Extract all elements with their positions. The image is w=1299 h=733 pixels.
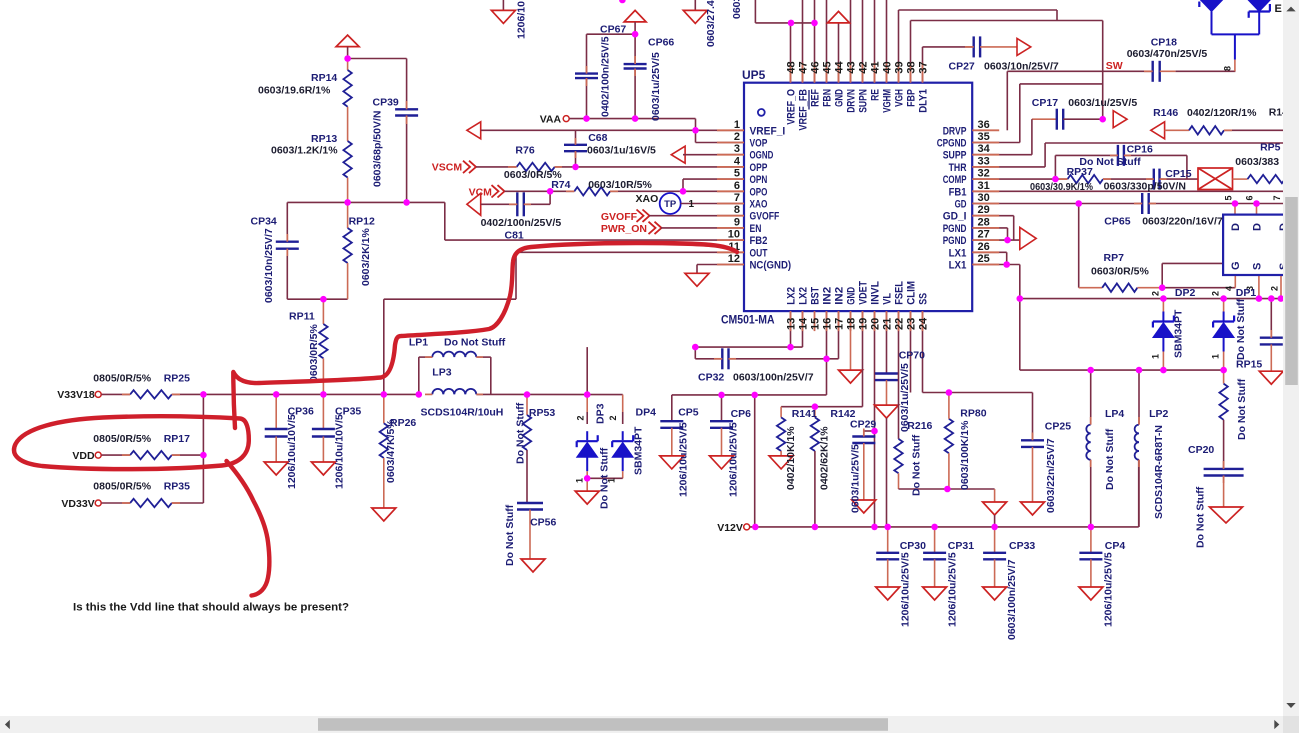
svg-text:25: 25 (978, 253, 990, 265)
svg-text:LP2: LP2 (1149, 408, 1168, 420)
svg-text:0603/220n/16V/7: 0603/220n/16V/7 (1142, 216, 1223, 228)
svg-text:CLIM: CLIM (906, 281, 918, 305)
svg-text:0603/1u/25V/5: 0603/1u/25V/5 (850, 444, 862, 513)
svg-text:0603/30.9K/1%: 0603/30.9K/1% (1030, 181, 1094, 193)
svg-text:0603/100K/1%: 0603/100K/1% (959, 420, 971, 490)
svg-text:43: 43 (846, 61, 858, 73)
svg-text:4: 4 (734, 155, 741, 167)
svg-text:RP12: RP12 (349, 216, 375, 228)
svg-text:VREF_O: VREF_O (786, 89, 798, 125)
svg-text:DLY1: DLY1 (918, 89, 930, 113)
svg-text:CP25: CP25 (1045, 421, 1071, 433)
svg-text:VGHM: VGHM (882, 89, 894, 113)
svg-text:5: 5 (1224, 195, 1234, 200)
svg-text:8: 8 (1223, 66, 1233, 71)
svg-text:7: 7 (1272, 195, 1282, 200)
svg-text:DP4: DP4 (636, 407, 657, 419)
svg-text:CP34: CP34 (251, 216, 277, 228)
svg-text:0805/0R/5%: 0805/0R/5% (93, 373, 151, 385)
svg-text:LX2: LX2 (798, 287, 810, 305)
svg-text:V33V18: V33V18 (57, 389, 95, 401)
svg-text:0603: 0603 (731, 0, 743, 19)
svg-text:16: 16 (822, 318, 834, 330)
svg-text:R216: R216 (907, 420, 932, 432)
svg-text:1: 1 (734, 119, 740, 131)
svg-text:2: 2 (1151, 291, 1161, 296)
svg-text:RP14: RP14 (311, 72, 337, 84)
svg-text:VL: VL (882, 293, 894, 305)
svg-text:1206/10u/10V/5: 1206/10u/10V/5 (286, 414, 298, 489)
svg-text:45: 45 (822, 61, 834, 73)
svg-text:SBM34PT: SBM34PT (1173, 309, 1185, 358)
svg-text:CPGND: CPGND (937, 138, 967, 150)
svg-text:CP5: CP5 (678, 407, 699, 419)
svg-text:C81: C81 (505, 230, 524, 242)
svg-text:VDET: VDET (858, 281, 870, 305)
svg-text:LX1: LX1 (949, 260, 967, 272)
svg-text:1: 1 (1211, 354, 1221, 359)
svg-text:RP35: RP35 (164, 481, 190, 493)
svg-text:0603/100n/25V/7: 0603/100n/25V/7 (733, 372, 814, 384)
svg-text:17: 17 (834, 318, 846, 330)
svg-text:THR: THR (949, 162, 967, 174)
svg-text:GD: GD (955, 199, 967, 211)
svg-text:4: 4 (1224, 286, 1234, 291)
svg-text:1206/10u/25V/5: 1206/10u/25V/5 (1103, 552, 1115, 627)
svg-text:39: 39 (894, 61, 906, 73)
svg-text:G: G (1230, 261, 1242, 270)
svg-text:Is this the Vdd line that shou: Is this the Vdd line that should always … (73, 602, 349, 614)
svg-text:0603/10n/25V/7: 0603/10n/25V/7 (984, 61, 1059, 73)
svg-text:0603/10n/25V/7: 0603/10n/25V/7 (263, 228, 275, 303)
svg-text:0603/68p/50V/N: 0603/68p/50V/N (372, 111, 384, 187)
svg-text:Do Not Stuff: Do Not Stuff (1235, 298, 1247, 360)
svg-text:IN2: IN2 (822, 287, 834, 305)
svg-text:46: 46 (810, 61, 822, 73)
svg-text:RP5: RP5 (1260, 142, 1281, 154)
svg-text:41: 41 (870, 61, 882, 73)
svg-text:1206/10u/25V/5: 1206/10u/25V/5 (727, 422, 739, 497)
svg-text:40: 40 (882, 61, 894, 73)
svg-text:E: E (1275, 3, 1282, 15)
svg-text:0603/0R/5%: 0603/0R/5% (1091, 266, 1149, 278)
svg-text:CP4: CP4 (1105, 540, 1126, 552)
svg-text:10: 10 (728, 229, 740, 241)
svg-text:0603/330p/50V/N: 0603/330p/50V/N (1104, 181, 1186, 193)
svg-text:CP27: CP27 (949, 61, 975, 73)
svg-text:6: 6 (734, 180, 740, 192)
svg-text:31: 31 (978, 180, 990, 192)
svg-text:RP15: RP15 (1236, 359, 1262, 371)
svg-text:GVOFF: GVOFF (601, 211, 638, 223)
svg-text:Do Not Stuff: Do Not Stuff (514, 402, 526, 464)
svg-text:LP3: LP3 (432, 367, 451, 379)
svg-text:7: 7 (734, 192, 740, 204)
svg-text:PGND: PGND (943, 223, 967, 235)
svg-text:PWR_ON: PWR_ON (601, 223, 647, 235)
svg-text:XAO: XAO (636, 193, 659, 205)
svg-text:12: 12 (728, 253, 740, 265)
svg-text:23: 23 (906, 318, 918, 330)
svg-text:CP56: CP56 (530, 517, 556, 529)
svg-text:20: 20 (870, 318, 882, 330)
svg-text:RE: RE (870, 89, 882, 101)
svg-text:VSCM: VSCM (432, 162, 463, 174)
svg-text:RP13: RP13 (311, 133, 337, 145)
svg-text:Do Not Stuff: Do Not Stuff (444, 337, 506, 349)
svg-text:2: 2 (576, 415, 586, 420)
svg-text:0402/120R/1%: 0402/120R/1% (1187, 107, 1257, 119)
svg-text:DRVN: DRVN (846, 89, 858, 113)
svg-text:LP4: LP4 (1105, 408, 1124, 420)
svg-text:CP6: CP6 (731, 408, 752, 420)
svg-text:CP15: CP15 (1165, 168, 1191, 180)
svg-text:0603/19.6R/1%: 0603/19.6R/1% (258, 85, 331, 97)
svg-text:OPN: OPN (750, 174, 768, 186)
svg-text:R76: R76 (515, 145, 534, 157)
svg-text:36: 36 (978, 119, 990, 131)
svg-text:RP80: RP80 (960, 408, 986, 420)
svg-text:Do Not Stuff: Do Not Stuff (911, 434, 923, 496)
svg-text:0603/1u/16V/5: 0603/1u/16V/5 (587, 145, 656, 157)
svg-text:VGH: VGH (894, 89, 906, 107)
svg-text:R146: R146 (1153, 107, 1178, 119)
svg-text:6: 6 (1245, 195, 1255, 200)
svg-text:2: 2 (734, 131, 740, 143)
svg-text:37: 37 (918, 61, 930, 73)
svg-text:SS: SS (918, 293, 930, 305)
svg-text:CP39: CP39 (373, 97, 399, 109)
svg-text:30: 30 (978, 192, 990, 204)
svg-text:3: 3 (734, 143, 740, 155)
svg-text:VDD: VDD (72, 450, 95, 462)
svg-text:SCDS104R/10uH: SCDS104R/10uH (421, 407, 504, 419)
svg-text:21: 21 (882, 318, 894, 330)
svg-text:0402/100n/25V/5: 0402/100n/25V/5 (481, 217, 562, 229)
svg-text:0603/2K/1%: 0603/2K/1% (360, 228, 372, 286)
svg-text:47: 47 (798, 61, 810, 73)
svg-text:15: 15 (810, 318, 822, 330)
svg-text:28: 28 (978, 216, 990, 228)
svg-text:RP26: RP26 (390, 417, 416, 429)
svg-text:2: 2 (608, 415, 618, 420)
svg-text:SCDS104R-6R8T-N: SCDS104R-6R8T-N (1153, 425, 1165, 519)
svg-text:CP35: CP35 (335, 406, 361, 418)
svg-text:PGND: PGND (943, 235, 967, 247)
svg-text:CP31: CP31 (948, 540, 974, 552)
svg-text:EN: EN (750, 223, 762, 235)
svg-text:CP29: CP29 (850, 419, 876, 431)
svg-text:35: 35 (978, 131, 990, 143)
svg-text:0603/22n/25V/7: 0603/22n/25V/7 (1045, 438, 1057, 513)
svg-text:UP5: UP5 (742, 68, 766, 82)
svg-text:SUPN: SUPN (858, 89, 870, 113)
svg-text:1: 1 (575, 478, 585, 483)
svg-text:0603/1u/25V/5: 0603/1u/25V/5 (650, 52, 662, 121)
svg-text:DP3: DP3 (595, 403, 607, 424)
svg-text:V12V: V12V (717, 522, 743, 534)
svg-text:FB1: FB1 (949, 186, 967, 198)
svg-text:CP33: CP33 (1009, 540, 1035, 552)
svg-text:18: 18 (846, 318, 858, 330)
svg-text:INVL: INVL (870, 281, 882, 305)
svg-text:22: 22 (894, 318, 906, 330)
svg-text:0603/1u/25V/5: 0603/1u/25V/5 (1068, 97, 1137, 109)
svg-text:FB2: FB2 (750, 235, 768, 247)
svg-text:26: 26 (978, 241, 990, 253)
svg-text:GND: GND (834, 89, 846, 107)
svg-text:LX2: LX2 (786, 287, 798, 305)
svg-text:OUT: OUT (750, 247, 768, 259)
svg-text:FSEL: FSEL (894, 281, 906, 305)
svg-text:48: 48 (786, 61, 798, 73)
svg-text:RP11: RP11 (289, 311, 315, 323)
svg-text:SW: SW (1106, 60, 1123, 72)
svg-text:0402/10K/1%: 0402/10K/1% (785, 426, 797, 490)
svg-text:1206/10u/10V/5: 1206/10u/10V/5 (333, 414, 345, 489)
svg-text:DP2: DP2 (1175, 287, 1196, 299)
svg-text:33: 33 (978, 155, 990, 167)
svg-text:38: 38 (906, 61, 918, 73)
svg-text:CP32: CP32 (698, 372, 724, 384)
svg-text:0603/1.2K/1%: 0603/1.2K/1% (271, 145, 338, 157)
svg-text:9: 9 (734, 216, 740, 228)
svg-text:0805/0R/5%: 0805/0R/5% (93, 433, 151, 445)
svg-text:OGND: OGND (750, 150, 774, 162)
svg-text:1: 1 (1151, 354, 1161, 359)
svg-text:Do Not Stuff: Do Not Stuff (1236, 378, 1248, 440)
svg-text:Do Not Stuff: Do Not Stuff (1195, 486, 1207, 548)
svg-text:14: 14 (798, 317, 810, 330)
svg-text:8: 8 (734, 204, 740, 216)
svg-text:VD33V: VD33V (61, 498, 94, 510)
svg-text:RP53: RP53 (529, 407, 555, 419)
svg-text:D: D (1230, 223, 1242, 231)
svg-text:RP17: RP17 (164, 433, 190, 445)
svg-text:CP16: CP16 (1127, 144, 1153, 156)
svg-text:0603/0R/5%: 0603/0R/5% (308, 324, 320, 382)
svg-text:0402/100n/25V/5: 0402/100n/25V/5 (600, 36, 612, 117)
svg-text:R141: R141 (792, 408, 817, 420)
svg-text:RP37: RP37 (1067, 166, 1093, 178)
svg-text:1206/10u/25V/5: 1206/10u/25V/5 (900, 552, 912, 627)
svg-text:CP70: CP70 (899, 350, 925, 362)
svg-text:1: 1 (689, 199, 695, 210)
svg-text:D: D (1252, 223, 1264, 231)
svg-text:Do Not Stuff: Do Not Stuff (504, 504, 516, 566)
svg-text:C68: C68 (588, 132, 607, 144)
svg-text:BST: BST (810, 287, 822, 305)
svg-text:CP18: CP18 (1151, 37, 1177, 49)
svg-text:19: 19 (858, 318, 870, 330)
svg-text:REF: REF (810, 89, 822, 107)
svg-text:0603/100n/25V/7: 0603/100n/25V/7 (1006, 559, 1018, 640)
svg-text:FBN: FBN (822, 89, 834, 107)
svg-text:Do Not Stuff: Do Not Stuff (599, 447, 611, 509)
svg-text:FBP: FBP (906, 89, 918, 107)
svg-text:RP25: RP25 (164, 373, 190, 385)
svg-text:5: 5 (734, 168, 740, 180)
svg-text:0402/62K/1%: 0402/62K/1% (819, 426, 831, 490)
svg-text:VOP: VOP (750, 138, 768, 150)
svg-text:CM501-MA: CM501-MA (721, 313, 775, 327)
svg-text:VREF_FB: VREF_FB (798, 89, 810, 131)
svg-text:0603/470n/25V/5: 0603/470n/25V/5 (1127, 48, 1208, 60)
svg-text:42: 42 (858, 61, 870, 73)
svg-text:0603/10R/5%: 0603/10R/5% (588, 179, 652, 191)
svg-text:0603/27.4: 0603/27.4 (705, 0, 717, 47)
svg-text:24: 24 (918, 317, 930, 330)
svg-text:R74: R74 (551, 179, 570, 191)
svg-text:2: 2 (1270, 286, 1280, 291)
svg-text:CP66: CP66 (648, 37, 674, 49)
svg-text:GND: GND (846, 287, 858, 305)
svg-text:LX1: LX1 (949, 247, 967, 259)
svg-text:44: 44 (834, 60, 846, 73)
svg-text:DRVP: DRVP (943, 125, 967, 137)
svg-text:IN2: IN2 (834, 287, 846, 305)
svg-text:1206/10u/25V/5: 1206/10u/25V/5 (678, 422, 690, 497)
svg-text:27: 27 (978, 229, 990, 241)
svg-text:XAO: XAO (750, 199, 768, 211)
svg-text:CP67: CP67 (600, 24, 626, 36)
svg-text:1206/10: 1206/10 (515, 1, 527, 39)
svg-text:S: S (1252, 263, 1264, 270)
svg-text:GVOFF: GVOFF (750, 211, 780, 223)
svg-text:RP7: RP7 (1104, 252, 1125, 264)
svg-text:NC(GND): NC(GND) (750, 260, 792, 272)
svg-text:Do Not Stuff: Do Not Stuff (1104, 428, 1116, 490)
svg-text:CP20: CP20 (1188, 444, 1214, 456)
svg-text:CP36: CP36 (288, 406, 314, 418)
svg-text:CP65: CP65 (1104, 216, 1130, 228)
svg-text:OPP: OPP (750, 162, 768, 174)
svg-text:34: 34 (978, 143, 991, 155)
svg-text:TP: TP (664, 199, 677, 210)
svg-text:LP1: LP1 (409, 337, 428, 349)
svg-text:0805/0R/5%: 0805/0R/5% (93, 481, 151, 493)
svg-text:32: 32 (978, 168, 990, 180)
svg-text:SBM34PT: SBM34PT (632, 426, 644, 475)
svg-text:COMP: COMP (943, 174, 967, 186)
svg-text:1206/10u/25V/5: 1206/10u/25V/5 (946, 552, 958, 627)
svg-text:CP30: CP30 (900, 540, 926, 552)
svg-text:OPO: OPO (750, 186, 768, 198)
svg-text:2: 2 (1211, 291, 1221, 296)
svg-text:CP17: CP17 (1032, 97, 1058, 109)
svg-text:29: 29 (978, 204, 990, 216)
svg-text:0603/383: 0603/383 (1235, 156, 1279, 168)
svg-text:13: 13 (786, 318, 798, 330)
svg-text:DP1: DP1 (1236, 287, 1257, 299)
svg-text:VAA: VAA (540, 114, 562, 126)
svg-text:GD_I: GD_I (943, 211, 967, 223)
svg-text:SUPP: SUPP (943, 150, 967, 162)
svg-text:VREF_I: VREF_I (750, 125, 786, 137)
